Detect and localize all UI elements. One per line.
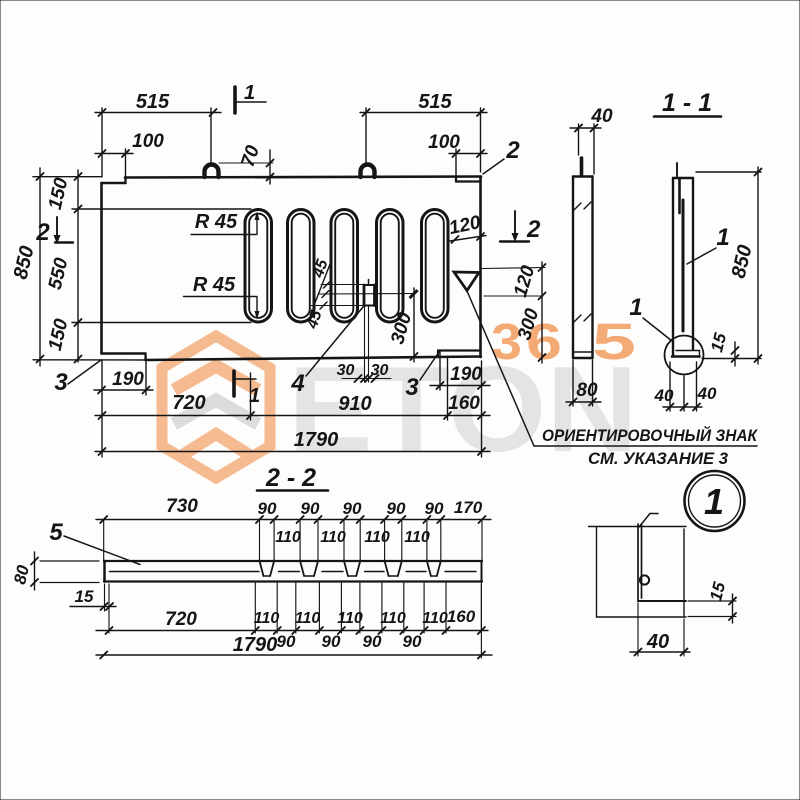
svg-text:90: 90 (301, 499, 320, 518)
detail circle on corner (665, 336, 704, 375)
svg-text:110: 110 (275, 529, 301, 546)
dim 40 bar top (570, 127, 601, 129)
svg-text:910: 910 (338, 393, 371, 415)
svg-text:515: 515 (418, 91, 452, 113)
dim 300 center vertical (413, 288, 415, 362)
lifting lug left (205, 165, 219, 177)
dim 190 left (94, 389, 153, 391)
svg-text:100: 100 (132, 131, 164, 152)
panel left edge (100, 183, 103, 354)
section marker 1 bottom (232, 371, 236, 396)
svg-text:2: 2 (505, 137, 520, 164)
svg-text:515: 515 (136, 91, 170, 113)
dim 720/910/160 (95, 415, 490, 417)
slot 4 inner (381, 214, 399, 318)
svg-text:100: 100 (428, 132, 460, 153)
svg-text:1 - 1: 1 - 1 (662, 89, 712, 117)
svg-text:30: 30 (371, 362, 389, 379)
dim 190 right (430, 385, 490, 387)
svg-text:110: 110 (320, 529, 346, 546)
svg-text:1: 1 (716, 224, 729, 251)
embedded plate item 4 (363, 285, 366, 306)
svg-text:90: 90 (258, 499, 277, 518)
slot 2 inner (292, 214, 310, 318)
svg-text:110: 110 (337, 610, 363, 627)
dim 30/30 (364, 306, 366, 382)
svg-text:СМ. УКАЗАНИЕ 3: СМ. УКАЗАНИЕ 3 (588, 449, 729, 468)
svg-text:1: 1 (244, 82, 255, 104)
svg-text:1790: 1790 (294, 429, 339, 451)
svg-text:15: 15 (706, 580, 729, 603)
svg-text:1: 1 (704, 481, 724, 522)
svg-text:3: 3 (54, 369, 68, 396)
svg-text:R 45: R 45 (193, 274, 236, 296)
panel bottom-right notch (438, 349, 481, 351)
dim 515 left (95, 112, 221, 114)
svg-text:1: 1 (249, 385, 260, 407)
svg-text:ОРИЕНТИРОВОЧНЫЙ ЗНАК: ОРИЕНТИРОВОЧНЫЙ ЗНАК (542, 425, 758, 445)
slot 1 inner (249, 214, 267, 318)
svg-text:120: 120 (447, 212, 483, 239)
leader to orientation note (467, 291, 534, 446)
slot 5 inner (426, 214, 444, 318)
svg-text:110: 110 (422, 610, 448, 627)
svg-text:150: 150 (45, 317, 73, 353)
strip mid line (110, 571, 260, 573)
svg-text:160: 160 (448, 393, 480, 414)
svg-text:110: 110 (404, 529, 430, 546)
strip outline (104, 560, 482, 562)
watermark 365 orange (491, 313, 636, 370)
svg-text:850: 850 (10, 244, 39, 281)
svg-text:720: 720 (165, 609, 197, 630)
plate construction lines 45/45 (321, 284, 364, 286)
svg-text:1: 1 (629, 294, 642, 321)
svg-text:2: 2 (526, 216, 541, 243)
svg-text:4: 4 (290, 370, 304, 397)
svg-text:110: 110 (380, 610, 406, 627)
slot 3 inner (335, 214, 353, 318)
svg-text:5: 5 (49, 519, 63, 546)
svg-text:40: 40 (654, 386, 674, 405)
dim 15 strip left (70, 606, 116, 608)
svg-text:90: 90 (343, 499, 362, 518)
svg-text:90: 90 (322, 632, 341, 651)
panel bottom-left notch (102, 352, 146, 354)
slot 1 outer (245, 210, 272, 323)
svg-text:3: 3 (491, 313, 522, 370)
detail bent plate (637, 524, 639, 601)
svg-text:3: 3 (405, 374, 419, 401)
slot 4 outer (377, 210, 404, 323)
svg-text:R 45: R 45 (195, 211, 238, 233)
svg-text:40: 40 (646, 631, 669, 653)
svg-text:45: 45 (304, 307, 326, 331)
detail weld hole (640, 575, 649, 584)
svg-text:850: 850 (728, 243, 757, 280)
slot 3 outer (331, 210, 358, 323)
slot 2 outer (288, 210, 315, 323)
svg-text:80: 80 (576, 380, 598, 401)
svg-text:15: 15 (75, 587, 94, 606)
panel top edge (125, 177, 481, 178)
svg-text:80: 80 (10, 563, 33, 586)
detail corner drawing (589, 526, 687, 528)
svg-text:5: 5 (592, 313, 636, 370)
svg-text:15: 15 (707, 331, 730, 354)
detail callout circle 1 (685, 471, 745, 531)
2-2 top dimension line (96, 519, 491, 521)
dim 15 detail (732, 594, 734, 623)
panel bottom edge (146, 357, 482, 361)
angle profile (672, 178, 674, 357)
dim 15 section (734, 342, 736, 366)
svg-text:40: 40 (590, 106, 613, 127)
dim 515 right (360, 112, 487, 114)
dim 850 right (757, 167, 759, 364)
svg-text:40: 40 (697, 384, 717, 403)
svg-text:730: 730 (166, 496, 198, 517)
svg-text:150: 150 (45, 176, 73, 212)
dim 100 right (449, 153, 487, 155)
panel top-left notch (102, 182, 126, 185)
svg-text:90: 90 (277, 632, 296, 651)
svg-text:2 - 2: 2 - 2 (265, 464, 316, 492)
svg-text:550: 550 (45, 256, 73, 292)
dim 100 left (95, 153, 133, 155)
2-2 top extension lines (103, 521, 105, 560)
dim 80 strip left (34, 552, 36, 590)
dim 120/300 right (482, 268, 545, 269)
svg-text:110: 110 (295, 610, 321, 627)
bar outline (572, 177, 574, 359)
svg-text:110: 110 (254, 610, 280, 627)
dim 40/40 section bottom (663, 406, 702, 408)
lifting lug right (361, 165, 375, 177)
strip slots (260, 561, 264, 576)
svg-text:90: 90 (363, 632, 382, 651)
dim 80 bar bottom (566, 401, 601, 403)
section marker 1 top (233, 87, 237, 113)
2-2 bottom dimension row 1 (96, 630, 488, 632)
rebar in section (682, 200, 685, 331)
svg-text:720: 720 (172, 392, 205, 414)
svg-text:170: 170 (454, 498, 483, 517)
section marker 2 top right (514, 211, 516, 234)
dim 150/550/150 (77, 170, 79, 362)
svg-text:70: 70 (238, 143, 265, 170)
svg-text:110: 110 (364, 529, 390, 546)
svg-text:1790: 1790 (233, 634, 278, 656)
dim 70 lug (219, 162, 273, 164)
dim 850 (39, 168, 41, 366)
dim 40 detail (630, 651, 690, 653)
watermark logo hexagon (162, 336, 270, 478)
svg-text:90: 90 (387, 499, 406, 518)
svg-text:90: 90 (403, 632, 422, 651)
orientation mark triangle (454, 272, 479, 291)
panel right edge (479, 177, 482, 358)
svg-text:190: 190 (112, 369, 144, 390)
dim 120 upper (450, 236, 486, 242)
svg-text:30: 30 (337, 362, 355, 379)
2-2 bottom dimension row 2 (1790) (96, 654, 492, 656)
dim 1790 (95, 451, 490, 453)
svg-text:2: 2 (35, 219, 50, 246)
svg-text:90: 90 (425, 499, 444, 518)
svg-text:160: 160 (447, 607, 476, 626)
slot 5 outer (422, 210, 449, 323)
bar pin (580, 158, 584, 176)
svg-text:190: 190 (450, 364, 482, 385)
panel top-right notch (456, 180, 481, 182)
bar break marks (574, 203, 581, 210)
